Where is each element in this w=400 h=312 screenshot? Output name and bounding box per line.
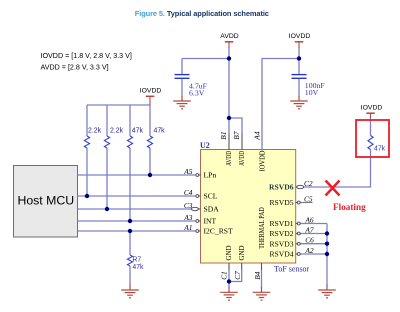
ground at C1/C7 (220, 287, 238, 300)
svg-text:B7: B7 (232, 131, 241, 140)
svg-text:47k: 47k (132, 128, 144, 135)
pin circle INT (196, 220, 199, 223)
wire B4 to ground (261, 270, 263, 288)
svg-text:AVDD: AVDD (220, 33, 238, 40)
pin stub B7 (241, 134, 243, 150)
svg-text:INT: INT (204, 217, 217, 226)
power symbol IOVDD pull-up rail (140, 88, 162, 106)
pin circle SCL (196, 195, 199, 198)
pin stub RSVD1 (296, 223, 298, 225)
resistor 47k INT pull-up (127, 136, 132, 148)
pin circle RSVD4 (297, 253, 300, 256)
ground at RSVD bus (318, 285, 336, 298)
wire RSVD2 (300, 233, 327, 235)
pin circle SDA (double) (191, 207, 198, 210)
svg-text:A4: A4 (252, 131, 261, 141)
svg-text:AVDD = [2.8 V, 3.3 V]: AVDD = [2.8 V, 3.3 V] (41, 63, 109, 71)
highlight box around 47k pull-up (356, 120, 389, 157)
svg-text:RSVD5: RSVD5 (269, 198, 293, 207)
power symbol AVDD (220, 33, 238, 48)
pin stub RSVD4 (296, 253, 298, 255)
pin stub RSVD6 (296, 186, 298, 188)
svg-text:RSVD6: RSVD6 (269, 183, 294, 192)
svg-text:C1: C1 (220, 271, 229, 280)
svg-text:47k: 47k (374, 145, 386, 152)
svg-text:RSVD2: RSVD2 (269, 229, 293, 238)
wire R7 upper (129, 231, 131, 255)
wire col2 lower (106, 148, 108, 209)
svg-text:6.3V: 6.3V (189, 88, 205, 97)
pin circle RSVD1 (297, 222, 300, 225)
pin stub C7 (241, 263, 243, 270)
wire IOVDD branch to A4 (262, 59, 299, 150)
pin stub RSVD2 (296, 233, 298, 235)
svg-text:Floating: Floating (333, 202, 366, 212)
ground at 100nF cap (290, 96, 308, 109)
svg-text:ToF sensor: ToF sensor (274, 265, 310, 274)
pin stub SDA (198, 208, 200, 210)
wire cap 100nF bottom lead (298, 79, 300, 97)
junction dot C1 C7 (227, 279, 231, 283)
junction dot SDA pull-up (105, 207, 109, 211)
resistor 2.2k SCL pull-up (84, 136, 89, 148)
junction dot SCL pull-up (85, 194, 89, 198)
wire col2 upper (106, 105, 108, 136)
resistor R7 47k (127, 255, 132, 266)
junction dot RSVD4 bus (325, 252, 329, 256)
svg-text:GND: GND (224, 245, 233, 260)
wire cap 4.7uF top lead (181, 59, 183, 76)
wire RSVD bus vertical (326, 224, 328, 286)
wire cap 4.7uF bottom lead (181, 79, 183, 97)
pin circle RSVD6 (297, 185, 304, 188)
svg-text:Host MCU: Host MCU (17, 193, 74, 207)
svg-text:C7: C7 (233, 271, 242, 280)
svg-text:B1: B1 (219, 131, 228, 139)
ground at 4.7uF cap (173, 96, 191, 109)
pin stub RSVD3 (296, 243, 298, 245)
wire col4 lower (149, 148, 151, 175)
junction dot AVDD branch (227, 56, 231, 60)
pin stub RSVD5 (296, 202, 298, 204)
pin circle RSVD3 (297, 242, 300, 245)
svg-text:IOVDD: IOVDD (257, 150, 266, 171)
power symbol IOVDD top (289, 33, 311, 48)
pin circle RSVD2 (297, 232, 300, 235)
wire pull-up 47k vertical lower (370, 150, 372, 188)
wire IOVDD vertical (298, 48, 300, 76)
pin circle RSVD5 (297, 201, 300, 204)
resistor 2.2k SDA pull-up (104, 136, 109, 148)
svg-text:THERMAL PAD: THERMAL PAD (257, 207, 266, 249)
svg-text:2.2k: 2.2k (110, 128, 124, 135)
wire I2C_RST from MCU (78, 230, 196, 232)
wire INT from MCU (78, 220, 196, 222)
wire SCL from MCU (78, 195, 196, 197)
svg-text:SDA: SDA (204, 205, 220, 214)
wire LPn from MCU (78, 174, 196, 176)
wire RSVD3 (300, 243, 327, 245)
svg-text:RSVD4: RSVD4 (269, 250, 293, 259)
pin stub B4 (261, 263, 263, 270)
pin stub I2C_RST (199, 230, 201, 232)
svg-text:IOVDD: IOVDD (361, 104, 383, 111)
junction dot I2C_RST R7 (128, 229, 132, 233)
IC U2 body (201, 150, 296, 264)
svg-text:U2: U2 (200, 141, 210, 150)
wire pull-up 47k vertical upper (370, 118, 372, 136)
wire col4 upper (149, 105, 151, 136)
wire R7 lower (129, 266, 131, 284)
svg-text:AVDD: AVDD (224, 150, 233, 166)
pin stub B1 (228, 134, 230, 150)
junction dot RSVD2 bus (325, 231, 329, 235)
power symbol IOVDD right (361, 104, 383, 118)
svg-text:IOVDD: IOVDD (289, 33, 311, 40)
ground at B4 (253, 287, 271, 300)
wire C1 to ground (228, 270, 230, 288)
wire AVDD branch to C4.7uF (182, 58, 229, 60)
pin stub SCL (199, 195, 201, 197)
wire col3 lower (129, 148, 131, 221)
wire B7 branch (229, 118, 242, 134)
svg-text:RSVD3: RSVD3 (269, 239, 293, 248)
svg-text:10V: 10V (305, 88, 319, 97)
no-connect X mark (326, 181, 340, 196)
resistor 47k LPn pull-up (147, 136, 152, 148)
capacitor C 4.7uF plates (175, 75, 190, 79)
svg-text:R7: R7 (132, 256, 141, 263)
pin circle I2C_RST (196, 230, 199, 233)
wire pull-up rail (87, 104, 150, 106)
wire RSVD6 to pull-up (304, 186, 371, 188)
svg-text:2.2k: 2.2k (88, 128, 102, 135)
svg-text:SCL: SCL (204, 192, 218, 201)
Host MCU box (14, 166, 78, 238)
svg-text:IOVDD: IOVDD (140, 88, 162, 95)
resistor 47k RSVD6 pull-up (368, 136, 373, 150)
junction dot LPn pull-up (148, 173, 152, 177)
junction dot INT pull-up (128, 219, 132, 223)
junction dot IOVDD branch (297, 56, 301, 60)
svg-text:47k: 47k (132, 264, 144, 271)
svg-text:47k: 47k (154, 128, 166, 135)
wire col1 upper (86, 105, 88, 136)
junction dot RSVD3 bus (325, 242, 329, 246)
wire C7 jog to C1 (229, 270, 242, 282)
pin stub LPn (199, 174, 201, 176)
wire RSVD1 (300, 223, 327, 225)
wire AVDD vertical (228, 48, 230, 134)
ground at R7 (121, 284, 139, 298)
svg-text:RSVD1: RSVD1 (269, 219, 293, 228)
wire col3 upper (129, 105, 131, 136)
pin circle LPn (196, 174, 199, 177)
junction dot B7 branch (227, 116, 231, 120)
svg-text:LPn: LPn (204, 171, 217, 180)
pin stub C1 (228, 263, 230, 270)
svg-text:GND: GND (237, 245, 246, 260)
wire col1 lower (86, 148, 88, 196)
capacitor C 100nF plates (292, 75, 307, 79)
svg-text:I2C_RST: I2C_RST (204, 227, 233, 236)
svg-text:IOVDD = [1.8 V, 2.8 V, 3.3 V]: IOVDD = [1.8 V, 2.8 V, 3.3 V] (41, 52, 132, 60)
pin stub INT (199, 220, 201, 222)
wire RSVD4 (300, 253, 327, 255)
wire SDA from MCU (78, 208, 192, 210)
svg-text:AVDD: AVDD (237, 150, 246, 166)
svg-text:Figure 5. Typical application: Figure 5. Typical application schematic (135, 9, 269, 18)
